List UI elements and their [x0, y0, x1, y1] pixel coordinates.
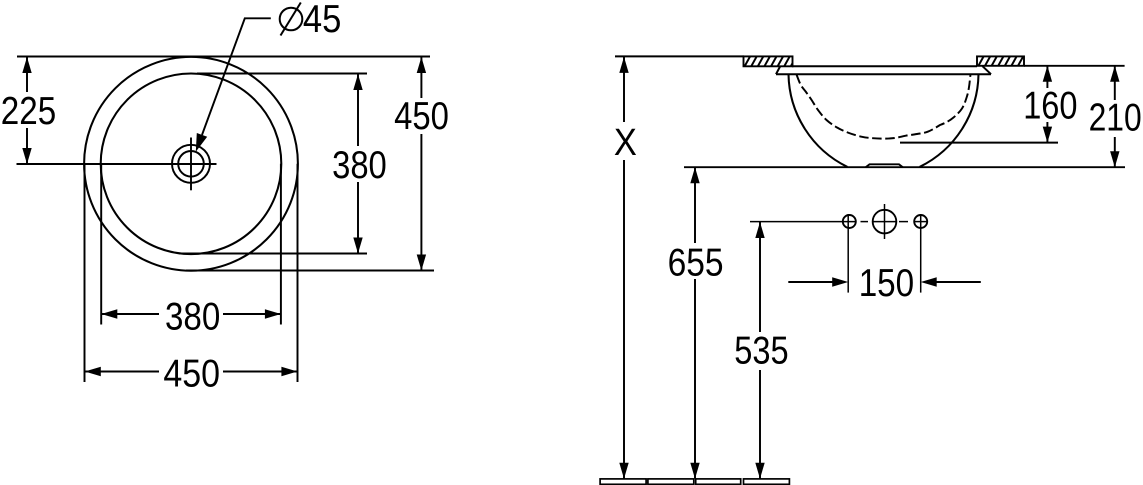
svg-text:655: 655 [668, 242, 724, 285]
extension line bottom of outer circle [186, 270, 434, 272]
dimension 535 line [759, 222, 761, 479]
svg-text:160: 160 [1023, 84, 1077, 127]
countertop hatch block right [977, 56, 1024, 65]
extension line basin bottom [684, 166, 1125, 168]
extension line right outer tangent [297, 164, 299, 382]
floor tile 3 [696, 479, 741, 484]
drain inner circle [178, 151, 204, 177]
svg-text:X: X [614, 122, 637, 164]
dimension 450 horizontal line [85, 371, 298, 373]
inner basin circle (top view) [101, 74, 282, 255]
basin outer wall left [789, 74, 848, 167]
dimension 450 vertical line [420, 57, 422, 271]
dimension 655 line [694, 167, 696, 479]
leader line for drain diameter [202, 18, 271, 135]
basin foot notch [866, 164, 904, 167]
countertop hatch block left [744, 56, 793, 66]
outer basin circle (top view) [84, 57, 298, 271]
tap hole center line [750, 221, 928, 223]
floor tile 2 [648, 479, 694, 484]
drain center line vertical [190, 138, 192, 191]
extension line top of inner circle [197, 73, 367, 75]
floor tile 4 [744, 479, 790, 484]
svg-text:150: 150 [859, 262, 915, 305]
basin rim top line [792, 65, 977, 67]
tap hole right [914, 215, 927, 228]
extension line right tap hole [920, 214, 922, 293]
dimension 160 line [1046, 66, 1048, 143]
extension line left tap hole [847, 214, 849, 293]
extension line right inner tangent [280, 164, 282, 325]
extension line bottom of inner circle [180, 253, 367, 255]
svg-text:380: 380 [332, 144, 387, 187]
svg-text:380: 380 [165, 295, 220, 338]
extension line left inner tangent [100, 164, 102, 325]
tap hole left [843, 215, 856, 228]
extension line rim top right [1024, 65, 1125, 67]
svg-text:450: 450 [394, 95, 449, 138]
dimension 210 line [1114, 66, 1116, 167]
tap hole middle [873, 210, 897, 234]
dimension 380 horizontal line [101, 313, 281, 315]
countertop top line left [615, 55, 744, 57]
floor tile 1 [600, 479, 646, 484]
extension line top of circle [17, 56, 430, 58]
svg-text:450: 450 [163, 352, 220, 395]
drain center line horizontal [17, 163, 217, 165]
dimension X line [623, 57, 625, 479]
svg-text:535: 535 [734, 329, 788, 372]
drain outer circle [172, 145, 210, 183]
basin inner wall dashed [797, 75, 971, 139]
svg-text:45: 45 [303, 0, 342, 41]
basin rim right end [983, 66, 992, 74]
svg-text:225: 225 [1, 90, 56, 133]
dimension 150 line [788, 281, 981, 283]
extension line left outer tangent [84, 164, 86, 382]
svg-text:210: 210 [1089, 97, 1142, 140]
dimension 380 vertical line [357, 74, 359, 254]
diameter symbol [280, 8, 303, 31]
basin rim bottom line [776, 73, 991, 75]
basin outer wall right [920, 74, 979, 167]
dimension 225 line [26, 57, 28, 164]
basin rim left end [776, 67, 780, 75]
extension line inner bottom [900, 142, 1058, 144]
tap hole middle vertical center line [884, 204, 886, 239]
